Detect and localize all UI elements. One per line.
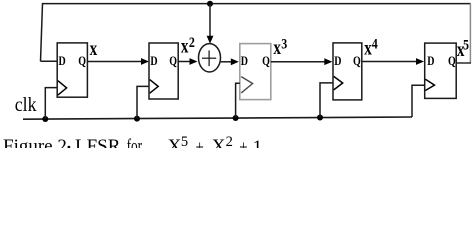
svg-text:Q: Q [262, 55, 270, 68]
XOR gate (modulo-2 adder) [199, 44, 221, 72]
junction dot: feedback tap node [207, 1, 213, 7]
svg-text:X: X [168, 136, 182, 148]
svg-text:clk: clk [15, 94, 37, 116]
wire: clk riser to U1 [45, 88, 57, 119]
wire: clk riser to U5 (bus end) [412, 85, 425, 117]
svg-text:4: 4 [372, 35, 378, 52]
wire: Q3 to D4 with arrowhead [271, 58, 333, 65]
wire: clock bus [23, 117, 412, 119]
wire: Q5 output stub [456, 62, 471, 64]
D flip-flop U2 [149, 43, 178, 99]
wire: Q2 into XOR with arrowhead [178, 58, 197, 65]
svg-text:5: 5 [463, 36, 469, 53]
wire: Q4 to D5 with arrowhead [362, 58, 424, 65]
label x^5 (Q5 output) [457, 36, 469, 60]
D flip-flop U5 [425, 43, 457, 98]
svg-text:3: 3 [281, 35, 287, 52]
svg-text:1: 1 [253, 137, 263, 148]
svg-text:5: 5 [181, 134, 188, 148]
svg-text:D: D [150, 55, 157, 68]
label x^2 (Q2 output) [181, 34, 195, 57]
svg-text:Q: Q [78, 55, 86, 68]
svg-text:Q: Q [353, 55, 361, 68]
junction dot: clk node U1 [42, 116, 48, 122]
D flip-flop U1 [57, 43, 87, 97]
D flip-flop U3 (light outline) [240, 44, 271, 100]
svg-text:Q: Q [169, 55, 177, 68]
wire: clk riser to U3 [236, 83, 240, 118]
svg-text:x: x [181, 34, 189, 57]
label x^3 (Q3 output) [273, 35, 287, 58]
svg-text:+: + [196, 137, 204, 148]
wire: clk riser to U2 [137, 86, 149, 118]
wire: XOR output to D3 with arrowhead [221, 58, 239, 65]
svg-text:D: D [427, 55, 434, 68]
label x^4 (Q4 output) [364, 35, 378, 59]
svg-text:D: D [241, 55, 248, 68]
svg-text:D: D [334, 55, 341, 68]
junction dot: clk node U2 [134, 116, 140, 122]
svg-text:2: 2 [226, 134, 233, 148]
svg-text:x: x [273, 35, 281, 58]
svg-text:Figure 2: Figure 2 [3, 136, 67, 148]
wire: right vertical from top wire down to Q5 [469, 4, 471, 64]
svg-text:X: X [212, 136, 226, 148]
D flip-flop U4 [333, 43, 362, 100]
wire: Q1 to D2 with arrowhead [87, 58, 149, 65]
junction dot: clk node U3 [233, 115, 239, 121]
wire: clk riser to U4 [320, 83, 333, 118]
wire: tap down into XOR with arrowhead [207, 4, 214, 44]
svg-text:2: 2 [189, 34, 195, 51]
svg-text:LFSR: LFSR [75, 136, 121, 148]
junction dot: clk node U4 [317, 115, 323, 121]
svg-text:x: x [90, 36, 98, 59]
svg-text:+: + [239, 137, 247, 148]
caption: Figure 2. LFSR for X^5 + X^2 + 1 [3, 134, 262, 158]
svg-text:for: for [127, 135, 143, 148]
svg-text:Q: Q [448, 55, 456, 68]
wire: feedback loop (left vertical + top horizontal) [41, 4, 471, 62]
wire: feedback into D of U1 [41, 60, 58, 62]
svg-text:D: D [59, 55, 66, 68]
